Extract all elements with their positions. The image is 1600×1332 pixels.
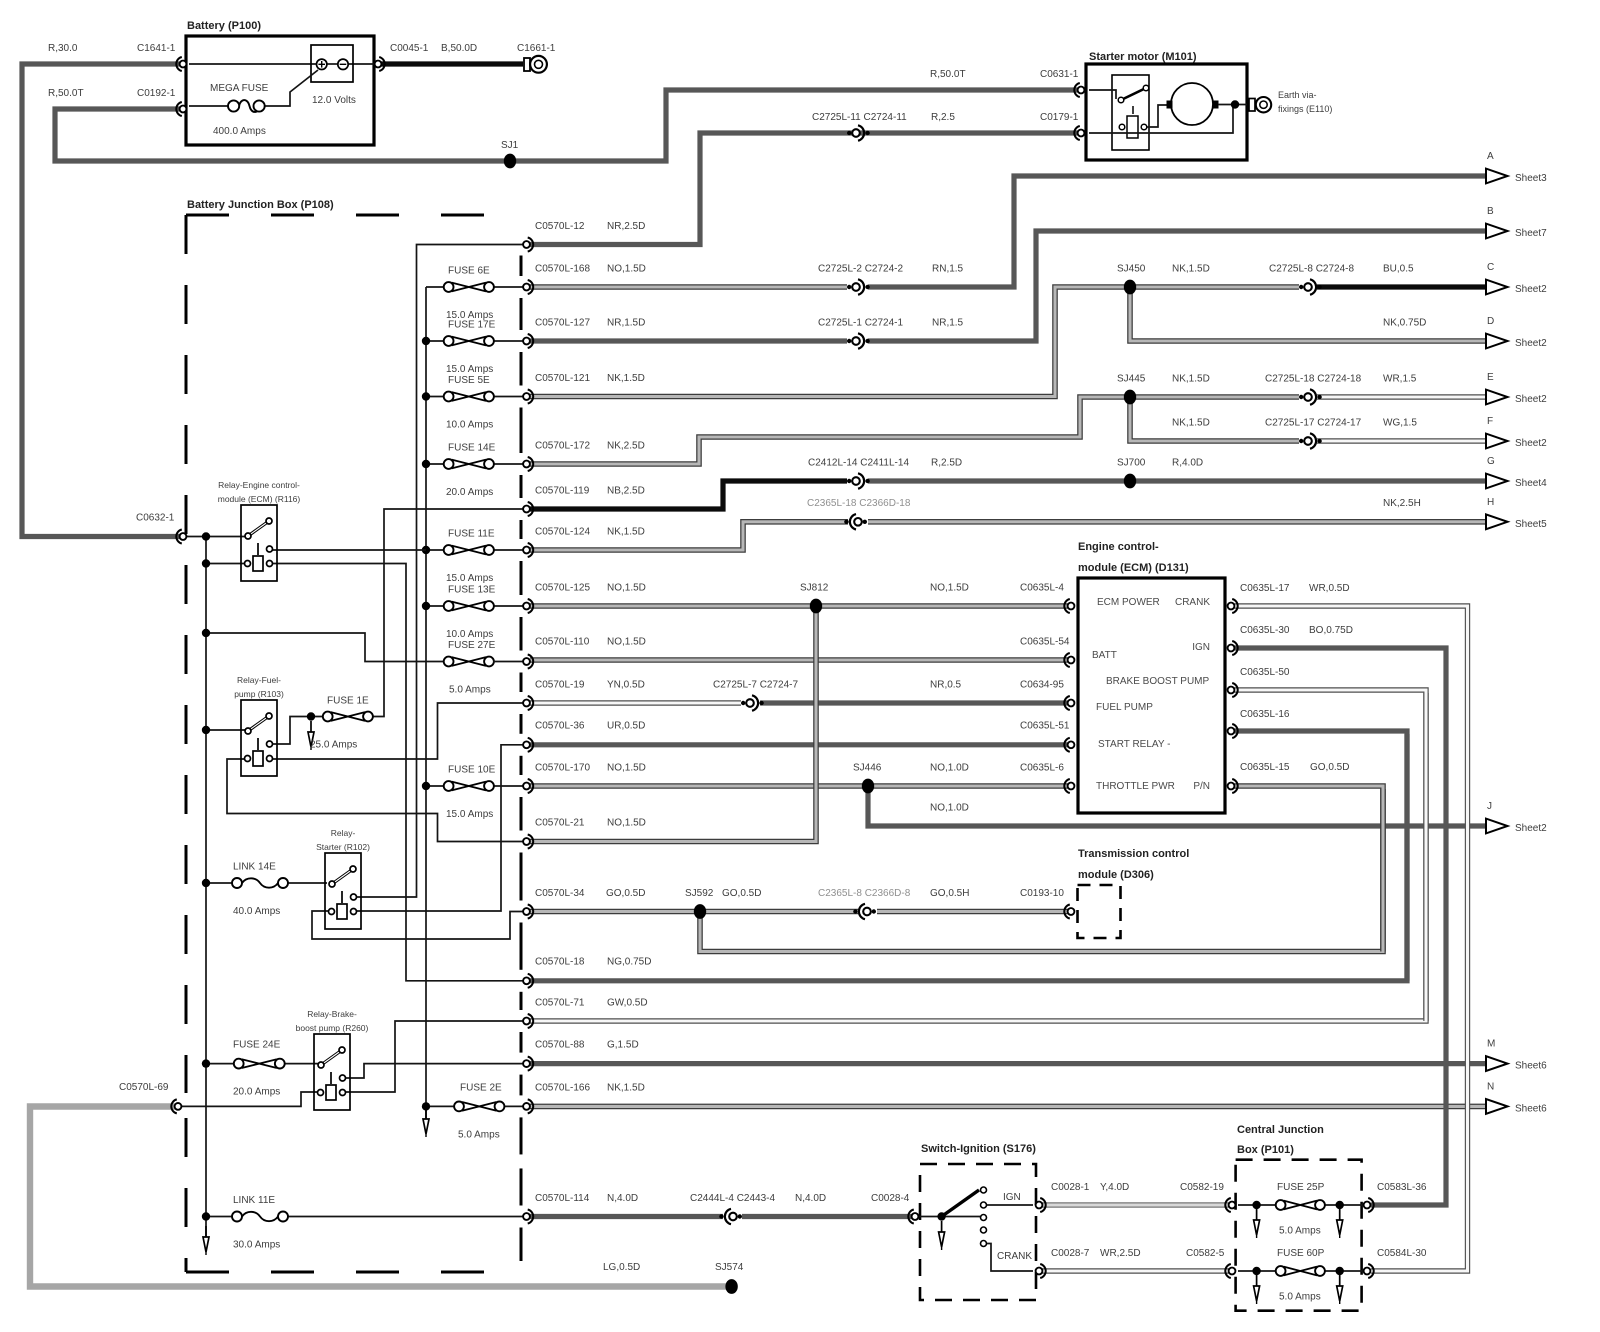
wire from ECM C0635L-16 down to NG row: [1228, 731, 1407, 981]
wire LG,0.5D from C0570L-69 to splice SJ574: [30, 1107, 728, 1287]
svg-text:Box (P101): Box (P101): [1237, 1144, 1294, 1156]
svg-text:C0570L-110: C0570L-110: [535, 637, 590, 648]
junction dot FUSE 11E: [422, 546, 430, 554]
S176 switch arm: [942, 1190, 979, 1217]
wire R103 coil left to C0570L-21: [227, 759, 523, 842]
relay R116 Relay-Engine control module: [241, 505, 277, 581]
svg-text:ECM POWER: ECM POWER: [1097, 597, 1160, 608]
connector pair C2365L-8 C2366D-8: [853, 909, 857, 913]
wire NO,1.5D from C0570L-170 through SJ446 to ECM C0635L-6: [530, 783, 1068, 789]
svg-text:Battery (P100): Battery (P100): [187, 20, 261, 32]
wire S176 IGN contact to C0028-1: [987, 1204, 1033, 1206]
svg-text:C0192-1: C0192-1: [137, 88, 176, 99]
wire NK,1.5D from C0570L-166 to sheet N arrow (Sheet6): [530, 1104, 1487, 1110]
fuse FUSE 2E: [462, 1102, 497, 1111]
svg-text:Switch-Ignition (S176): Switch-Ignition (S176): [921, 1143, 1036, 1155]
svg-text:C0570L-170: C0570L-170: [535, 763, 590, 774]
wire R,50.0T from C0192-1 via SJ1 to starter C0631-1: [55, 90, 1078, 161]
connector pair C2725L-18 C2724-18: [1299, 395, 1303, 399]
connector C0583L-36: [1364, 1202, 1371, 1209]
connector C0570L-18: [523, 977, 530, 984]
starter solenoid sub-box: [1112, 75, 1149, 150]
svg-text:LINK 11E: LINK 11E: [233, 1195, 275, 1206]
svg-text:B,50.0D: B,50.0D: [441, 43, 477, 54]
wire FUSE 2E row: [426, 1105, 454, 1107]
junction dot FUSE 10E: [422, 782, 430, 790]
relay R260 Relay-Brake boost pump: [314, 1034, 350, 1110]
relay R103 Relay-Fuel pump: [241, 700, 277, 776]
wire C0632-1 to relay R116 input: [183, 536, 248, 538]
svg-text:C2725L-1 C2724-1: C2725L-1 C2724-1: [818, 318, 903, 329]
svg-text:E: E: [1487, 372, 1494, 383]
svg-text:NK,1.5D: NK,1.5D: [607, 1083, 645, 1094]
connector C0570L-125: [523, 603, 530, 610]
svg-text:C0570L-172: C0570L-172: [535, 441, 590, 452]
engine control module ECM D131 box: [1078, 578, 1225, 813]
fuse FUSE 11E: [452, 546, 486, 555]
svg-text:NK,1.5D: NK,1.5D: [607, 373, 645, 384]
svg-text:Earth via-: Earth via-: [1278, 90, 1317, 100]
svg-text:NO,1.0D: NO,1.0D: [930, 803, 969, 814]
link LINK 11E: [210, 1216, 233, 1218]
svg-text:Sheet7: Sheet7: [1515, 228, 1547, 239]
svg-text:Starter (R102): Starter (R102): [316, 842, 370, 852]
wire FUSE 13E row: [426, 605, 444, 607]
svg-text:SJ700: SJ700: [1117, 458, 1146, 469]
connector C0570L-34: [523, 908, 530, 915]
connector C0635L-6: [1068, 783, 1075, 790]
wire R260 coil left to C0570L-69: [181, 1092, 321, 1106]
svg-text:C0583L-36: C0583L-36: [1377, 1182, 1427, 1193]
svg-text:module (D306): module (D306): [1078, 869, 1154, 881]
connector C0192-1: [180, 106, 187, 113]
svg-text:G,1.5D: G,1.5D: [607, 1040, 639, 1051]
fuse FUSE 14E: [452, 460, 486, 469]
svg-text:SJ446: SJ446: [853, 763, 882, 774]
junction dot FUSE 5E: [422, 392, 430, 400]
wire bus to FUSE 27E feed: [206, 633, 444, 662]
svg-text:GO,0.5D: GO,0.5D: [606, 888, 645, 899]
ground arrow below FUSE 1E feed: [310, 721, 312, 732]
svg-text:module (ECM) (R116): module (ECM) (R116): [218, 494, 301, 504]
fuse FUSE 10E: [452, 782, 486, 791]
connector C1641-1: [180, 61, 187, 68]
svg-text:J: J: [1487, 801, 1492, 812]
svg-text:G: G: [1487, 456, 1495, 467]
svg-text:10.0 Amps: 10.0 Amps: [446, 629, 493, 640]
svg-text:CRANK: CRANK: [997, 1251, 1032, 1262]
svg-text:NR,0.5: NR,0.5: [930, 680, 962, 691]
svg-text:FUSE 2E: FUSE 2E: [460, 1083, 502, 1094]
svg-text:GO,0.5D: GO,0.5D: [1310, 762, 1349, 773]
fuse FUSE 5E: [452, 392, 486, 401]
svg-text:SJ450: SJ450: [1117, 264, 1146, 275]
battery internal wire from C1641-1 to terminals: [189, 63, 316, 65]
svg-text:C0570L-168: C0570L-168: [535, 264, 590, 275]
svg-text:R,2.5D: R,2.5D: [931, 458, 962, 469]
wire NK,1.5D from C0570L-124 through pair C2365L-18 row H NK,2.5H to Sheet5: [530, 522, 848, 550]
svg-text:FUSE 1E: FUSE 1E: [327, 696, 369, 707]
svg-text:FUSE 11E: FUSE 11E: [448, 529, 495, 540]
svg-text:C0570L-69: C0570L-69: [119, 1082, 169, 1093]
svg-text:FUSE 17E: FUSE 17E: [448, 320, 496, 331]
svg-text:15.0 Amps: 15.0 Amps: [446, 573, 493, 584]
svg-text:NO,1.5D: NO,1.5D: [607, 583, 646, 594]
svg-text:C0570L-21: C0570L-21: [535, 818, 585, 829]
fuse FUSE 13E: [452, 602, 486, 611]
svg-text:FUSE 13E: FUSE 13E: [448, 585, 496, 596]
mega fuse element: [239, 100, 260, 112]
svg-text:BRAKE BOOST PUMP: BRAKE BOOST PUMP: [1106, 676, 1210, 687]
junction dot after FUSE 25P: [1336, 1201, 1344, 1209]
svg-text:Sheet2: Sheet2: [1515, 394, 1547, 405]
transmission control module D306 dashed box: [1078, 885, 1121, 938]
connector C0570L-71: [523, 1018, 530, 1025]
sheet arrow A Sheet3: [1486, 169, 1508, 184]
connector C0635L-17: [1228, 603, 1235, 610]
svg-text:WR,0.5D: WR,0.5D: [1309, 583, 1350, 594]
connector C0028-1: [1036, 1202, 1043, 1209]
svg-text:C0635L-15: C0635L-15: [1240, 762, 1290, 773]
svg-text:C0635L-4: C0635L-4: [1020, 583, 1064, 594]
svg-text:F: F: [1487, 416, 1493, 427]
sheet arrow N Sheet6: [1486, 1099, 1508, 1114]
starter motor M101 box: [1086, 64, 1247, 160]
svg-text:C0635L-16: C0635L-16: [1240, 709, 1290, 720]
svg-text:C2725L-7 C2724-7: C2725L-7 C2724-7: [713, 680, 798, 691]
svg-text:C0570L-119: C0570L-119: [535, 486, 590, 497]
battery negative terminal: [338, 59, 348, 69]
S176 internal input and contacts: [918, 1216, 983, 1218]
earth ring E110: [1249, 99, 1255, 112]
splice SJ1: [504, 154, 516, 169]
svg-text:NO,1.0D: NO,1.0D: [930, 763, 969, 774]
svg-text:NO,1.5D: NO,1.5D: [607, 763, 646, 774]
svg-text:C: C: [1487, 262, 1494, 273]
junction dot R116 input: [202, 532, 210, 540]
svg-text:Battery Junction Box (P108): Battery Junction Box (P108): [187, 199, 334, 211]
connector C0582-5: [1229, 1268, 1236, 1275]
wire R,2.5 from C0570L-12 NR,2.5D to starter solenoid C0179-1: [530, 133, 1078, 245]
wire R116 coil left to bus: [206, 563, 247, 565]
svg-text:12.0 Volts: 12.0 Volts: [312, 95, 356, 106]
connector C0582-19: [1229, 1202, 1236, 1209]
svg-text:Sheet2: Sheet2: [1515, 823, 1547, 834]
fuse FUSE 24E: [242, 1059, 277, 1068]
connector C0570L-168: [523, 284, 530, 291]
sheet arrow C Sheet2: [1486, 280, 1508, 295]
wire R102 coil left to C0570L-34: [312, 911, 523, 939]
svg-text:5.0 Amps: 5.0 Amps: [1279, 1226, 1321, 1237]
connector pair C2725L-2 C2724-2: [847, 285, 851, 289]
ground arrow at bottom of left bus: [205, 1226, 207, 1237]
wire R116 coil right to C0570L-18: [272, 564, 523, 981]
fuse FUSE 6E: [452, 283, 486, 292]
svg-text:NK,2.5H: NK,2.5H: [1383, 498, 1421, 509]
mega fuse internal wires: [189, 105, 228, 107]
svg-text:NO,1.5D: NO,1.5D: [607, 818, 646, 829]
splice SJ812: [810, 599, 822, 614]
wire NO,1.5D from C0570L-125 through SJ812 to ECM C0635L-4: [530, 603, 1068, 609]
wire FUSE 14E row: [426, 463, 444, 465]
connector C0570L-110: [523, 658, 530, 665]
junction dot S176 input: [937, 1212, 945, 1220]
svg-text:BO,0.75D: BO,0.75D: [1309, 625, 1353, 636]
svg-text:Engine control-: Engine control-: [1078, 541, 1159, 553]
svg-text:Relay-Fuel-: Relay-Fuel-: [237, 675, 281, 685]
svg-text:C0570L-19: C0570L-19: [535, 680, 585, 691]
svg-text:C0570L-36: C0570L-36: [535, 721, 585, 732]
left bus vertical inside P108: [205, 537, 207, 1241]
connector C0570L-166: [523, 1103, 530, 1110]
connector pair C2444L-4 C2443-4: [719, 1214, 723, 1218]
connector C0570L-69: [175, 1103, 182, 1110]
wire WR,0.5D from ECM C0635L-17 CRANK down to CJB C0584L-30: [1228, 606, 1468, 1271]
svg-text:H: H: [1487, 497, 1494, 508]
svg-text:YN,0.5D: YN,0.5D: [607, 680, 645, 691]
svg-text:SJ574: SJ574: [715, 1262, 744, 1273]
wire NO,1.5D from C0570L-21 up to SJ812: [530, 606, 816, 842]
wire YN,0.5D from C0570L-19 to pair C2725L-7 then NR,0.5 to ECM C0634-95: [530, 700, 741, 705]
svg-text:C0570L-88: C0570L-88: [535, 1040, 585, 1051]
fuse FUSE 25P: [1284, 1201, 1317, 1210]
svg-text:5.0 Amps: 5.0 Amps: [1279, 1292, 1321, 1303]
svg-text:C0582-5: C0582-5: [1186, 1248, 1225, 1259]
fuse FUSE 27E: [452, 657, 486, 666]
svg-text:C0584L-30: C0584L-30: [1377, 1248, 1427, 1259]
sheet arrow B Sheet7: [1486, 224, 1508, 239]
svg-text:GO,0.5H: GO,0.5H: [930, 888, 969, 899]
wire R260 switch output to C0570L-88: [345, 1064, 523, 1078]
connector pair C2365L-18 C2366D-18: [844, 520, 848, 524]
wire UR,0.5D from C0570L-36 to ECM C0635L-51: [530, 742, 1068, 747]
connector pair C2725L-17 C2724-17: [1299, 439, 1303, 443]
connector C0028-4: [912, 1213, 919, 1220]
svg-text:NB,2.5D: NB,2.5D: [607, 486, 645, 497]
svg-text:C2725L-11 C2724-11: C2725L-11 C2724-11: [812, 112, 907, 123]
junction dot LINK 11E: [202, 1212, 210, 1220]
connector C0635L-15: [1228, 783, 1235, 790]
connector pair C2725L-8 C2724-8: [1299, 285, 1303, 289]
svg-text:C0570L-124: C0570L-124: [535, 527, 590, 538]
wire FUSE 6E row: [426, 286, 444, 288]
svg-text:C0570L-125: C0570L-125: [535, 583, 590, 594]
wire S176 CRANK contact to C0028-7: [987, 1244, 1033, 1272]
wire NR,1.5D / NR,1.5 row C0570L-127 to sheet B arrow (Sheet7): [530, 338, 847, 343]
connector C0570L-19: [523, 700, 530, 707]
svg-text:B: B: [1487, 206, 1494, 217]
junction dot FUSE 14E: [422, 460, 430, 468]
svg-text:RN,1.5: RN,1.5: [932, 264, 964, 275]
starter solenoid internals: [1089, 90, 1116, 99]
svg-text:NR,1.5: NR,1.5: [932, 318, 964, 329]
svg-text:fixings (E110): fixings (E110): [1278, 104, 1332, 114]
ring terminal C1661-1: [524, 58, 530, 71]
wire motor to earth: [1218, 104, 1247, 106]
wire NB,2.5D from C0570L-119 to connector pair C2412L-14: [530, 481, 847, 509]
splice SJ700: [1124, 474, 1136, 489]
sheet arrow F Sheet2: [1486, 434, 1508, 449]
sheet arrow J Sheet2: [1486, 819, 1508, 834]
fuse FUSE 1E: [331, 712, 365, 721]
svg-text:C0570L-71: C0570L-71: [535, 998, 585, 1009]
sheet arrow D Sheet2: [1486, 334, 1508, 349]
starter motor armature circle: [1171, 83, 1213, 125]
svg-text:Y,4.0D: Y,4.0D: [1100, 1182, 1129, 1193]
wire Y,4.0D ignition IGN feed from C0028-1 to CJB C0582-19: [1039, 1202, 1232, 1207]
svg-text:FUSE 5E: FUSE 5E: [448, 375, 490, 386]
wire GW,0.5D from C0570L-71 to ECM C0635L-50: [530, 693, 1426, 1021]
fuse FUSE 24E feed wires: [210, 1063, 234, 1065]
svg-text:N,4.0D: N,4.0D: [795, 1193, 826, 1204]
svg-text:C2412L-14 C2411L-14: C2412L-14 C2411L-14: [808, 458, 909, 469]
svg-text:R,2.5: R,2.5: [931, 112, 955, 123]
connector C0635L-30: [1228, 645, 1235, 652]
svg-text:NK,2.5D: NK,2.5D: [607, 441, 645, 452]
ignition switch S176 dashed box: [920, 1164, 1036, 1300]
svg-text:20.0 Amps: 20.0 Amps: [233, 1087, 280, 1098]
svg-text:WR,1.5: WR,1.5: [1383, 374, 1417, 385]
sheet arrow G Sheet4: [1486, 474, 1508, 489]
wire R103 coil right to C0570L-19: [272, 703, 523, 759]
svg-text:NO,1.5D: NO,1.5D: [930, 583, 969, 594]
ground arrow left FUSE 25P: [1256, 1209, 1258, 1220]
svg-text:C0028-7: C0028-7: [1051, 1248, 1090, 1259]
svg-text:BU,0.5: BU,0.5: [1383, 264, 1414, 275]
central junction box P101 dashed border: [1236, 1160, 1362, 1311]
svg-text:THROTTLE PWR: THROTTLE PWR: [1096, 781, 1175, 792]
svg-text:5.0 Amps: 5.0 Amps: [458, 1130, 500, 1141]
ground arrow below S176 input: [941, 1221, 943, 1232]
junction dot FUSE 17E: [422, 337, 430, 345]
connector C0193-10: [1068, 908, 1075, 915]
battery positive terminal: [317, 59, 327, 69]
svg-text:C0632-1: C0632-1: [136, 513, 175, 524]
svg-text:Sheet2: Sheet2: [1515, 284, 1547, 295]
svg-text:Sheet4: Sheet4: [1515, 478, 1547, 489]
connector C0634-95: [1068, 700, 1075, 707]
wire R102 coil right to C0570L-36: [356, 745, 523, 911]
svg-text:FUSE 14E: FUSE 14E: [448, 443, 496, 454]
svg-text:C0028-4: C0028-4: [871, 1193, 910, 1204]
link LINK 14E: [210, 882, 233, 884]
svg-text:30.0 Amps: 30.0 Amps: [233, 1240, 280, 1251]
wire NO,1.5D / RN,1.5 row C0570L-168 to sheet A arrow (Sheet3): [530, 284, 847, 290]
connector C0570L-124: [523, 547, 530, 554]
wire NG,0.75D from C0570L-18 to ECM C0635L-16: [530, 734, 1407, 981]
wire FUSE 5E row: [426, 396, 444, 398]
wire WR,2.5D ignition CRANK feed from C0028-7 to CJB C0582-5: [1039, 1268, 1232, 1273]
svg-text:NO,1.5D: NO,1.5D: [607, 264, 646, 275]
svg-text:START RELAY -: START RELAY -: [1098, 739, 1170, 750]
wire from ECM C0635L-50 down to GW row: [1228, 690, 1426, 1021]
svg-text:UR,0.5D: UR,0.5D: [607, 721, 645, 732]
connector pair C2725L-11 C2724-11: [847, 131, 851, 135]
svg-text:R,50.0T: R,50.0T: [930, 69, 966, 80]
wire R102 switch output up to C0570L-12: [356, 245, 523, 898]
wire R,30.0 battery feed from C1641-1 to C0632-1: [22, 64, 180, 537]
svg-text:C2725L-8 C2724-8: C2725L-8 C2724-8: [1269, 264, 1354, 275]
wire C0179-1 line to earth node: [1089, 105, 1233, 133]
wire FUSE 27E to connector: [493, 661, 523, 663]
svg-text:MEGA FUSE: MEGA FUSE: [210, 83, 269, 94]
S176 contact circles: [981, 1187, 987, 1193]
junction dot FUSE 13E: [422, 602, 430, 610]
connector pair C2725L-1 C2724-1: [847, 339, 851, 343]
connector C0635L-54: [1068, 657, 1075, 664]
splice SJ446: [862, 779, 874, 794]
junction dot FUSE 24E: [202, 1059, 210, 1067]
svg-text:R,4.0D: R,4.0D: [1172, 458, 1203, 469]
connector pair C2725L-7 C2724-7: [741, 701, 745, 705]
svg-text:A: A: [1487, 151, 1494, 162]
svg-text:Sheet5: Sheet5: [1515, 519, 1547, 530]
svg-text:NK,0.75D: NK,0.75D: [1383, 318, 1426, 329]
svg-text:C0570L-12: C0570L-12: [535, 221, 585, 232]
svg-text:NK,1.5D: NK,1.5D: [1172, 374, 1210, 385]
connector C0570L-121: [523, 393, 530, 400]
svg-text:Transmission control: Transmission control: [1078, 848, 1189, 860]
svg-text:20.0 Amps: 20.0 Amps: [446, 487, 493, 498]
wire GO,0.5D from C0570L-34 through SJ592 and pair C2365L-8 to TCM C0193-10: [530, 909, 858, 915]
junction dot R116 coil: [202, 559, 210, 567]
svg-text:SJ445: SJ445: [1117, 374, 1146, 385]
svg-text:C0570L-121: C0570L-121: [535, 373, 590, 384]
junction dot FUSE 1E feed: [307, 712, 315, 720]
splice SJ445: [1124, 390, 1136, 405]
svg-text:C0634-95: C0634-95: [1020, 680, 1064, 691]
svg-text:GO,0.5D: GO,0.5D: [722, 888, 761, 899]
svg-text:C0635L-50: C0635L-50: [1240, 667, 1290, 678]
connector C0570L-170: [523, 783, 530, 790]
wire R260 coil right to C0570L-71: [345, 1021, 523, 1092]
svg-text:C1641-1: C1641-1: [137, 43, 176, 54]
wire NO,1.0D branch from SJ446 to sheet J arrow (Sheet2): [868, 786, 1487, 826]
svg-text:D: D: [1487, 316, 1494, 327]
splice SJ450: [1124, 280, 1136, 295]
svg-text:FUSE 10E: FUSE 10E: [448, 765, 496, 776]
svg-text:P/N: P/N: [1193, 781, 1210, 792]
svg-text:C0045-1: C0045-1: [390, 43, 429, 54]
svg-text:15.0 Amps: 15.0 Amps: [446, 364, 493, 375]
splice SJ592: [694, 904, 706, 919]
svg-text:Relay-Engine control-: Relay-Engine control-: [218, 480, 300, 490]
svg-text:N: N: [1487, 1081, 1494, 1092]
svg-text:R,50.0T: R,50.0T: [48, 88, 84, 99]
svg-text:5.0 Amps: 5.0 Amps: [449, 685, 491, 696]
svg-text:NK,1.5D: NK,1.5D: [1172, 264, 1210, 275]
svg-text:C0635L-51: C0635L-51: [1020, 721, 1070, 732]
svg-text:Central Junction: Central Junction: [1237, 1124, 1324, 1136]
connector pair C2412L-14 C2411L-14: [847, 479, 851, 483]
svg-text:Sheet2: Sheet2: [1515, 438, 1547, 449]
svg-text:FUSE 25P: FUSE 25P: [1277, 1182, 1325, 1193]
connector C0635L-51: [1068, 741, 1075, 748]
wire FUSE 17E row: [426, 340, 444, 342]
svg-text:WG,1.5: WG,1.5: [1383, 418, 1417, 429]
battery junction box P108 dashed border: [186, 214, 521, 217]
svg-text:C0635L-17: C0635L-17: [1240, 583, 1290, 594]
svg-text:SJ592: SJ592: [685, 888, 714, 899]
ground arrow left FUSE 60P: [1256, 1275, 1258, 1286]
svg-text:FUEL PUMP: FUEL PUMP: [1096, 702, 1153, 713]
svg-text:module (ECM) (D131): module (ECM) (D131): [1078, 562, 1189, 574]
connector C0045-1: [375, 61, 382, 68]
svg-text:IGN: IGN: [1192, 642, 1210, 653]
svg-text:C0570L-114: C0570L-114: [535, 1193, 590, 1204]
svg-text:C0635L-30: C0635L-30: [1240, 625, 1290, 636]
connector C0028-7: [1036, 1268, 1043, 1275]
